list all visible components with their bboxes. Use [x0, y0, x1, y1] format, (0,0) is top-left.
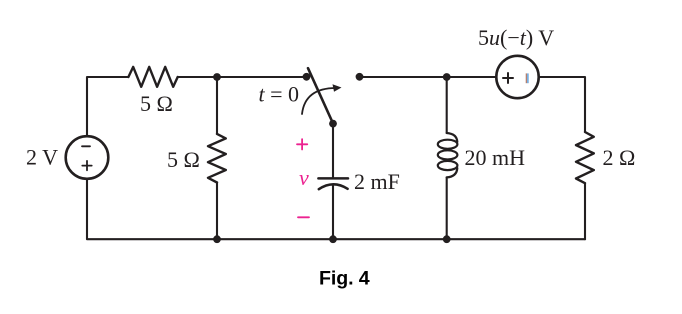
inductor L1 top hook — [447, 133, 458, 142]
wire node B to source U2 — [446, 76, 496, 78]
svg-text:20 mH: 20 mH — [465, 145, 526, 170]
resistor R3 2ohm vertical — [576, 132, 594, 183]
svg-text:5 Ω: 5 Ω — [140, 91, 173, 116]
node B dot — [443, 73, 451, 81]
inductor L1 coil loop 1 — [438, 140, 458, 149]
capacitor voltage plus sign (magenta) — [297, 139, 307, 149]
U2 minus tick (jpeg-coloured) — [526, 73, 528, 83]
U2 plus sign — [503, 73, 513, 83]
switch arrowhead — [333, 84, 342, 92]
wire node A down to R2 — [216, 77, 218, 134]
svg-text:2 mF: 2 mF — [354, 169, 400, 194]
inductor L1 coil loop 2 — [438, 150, 458, 159]
capacitor C1 bottom curved plate — [319, 184, 348, 189]
source V1 circle 2V — [66, 136, 109, 179]
node D dot — [213, 235, 221, 243]
svg-text:5 Ω: 5 Ω — [167, 147, 200, 172]
wire node A to switch pivot — [217, 76, 307, 78]
resistor R1 5ohm horizontal — [128, 67, 177, 87]
wire R3 to bottom-right corner — [584, 183, 586, 239]
wire bottom: node D to bottom-left corner and up to V1 — [87, 179, 217, 239]
switch arrow arc — [302, 88, 336, 114]
node A dot — [213, 73, 221, 81]
resistor R2 5ohm vertical — [208, 134, 226, 183]
wire capacitor C1 to bottom node C — [332, 185, 334, 240]
wire switch open terminal to node B — [362, 76, 446, 78]
V1 minus sign — [82, 145, 90, 147]
svg-text:v: v — [299, 165, 309, 190]
wire R2 to bottom node D — [216, 183, 218, 240]
switch lower terminal dot — [329, 120, 337, 128]
switch open terminal dot — [356, 73, 364, 81]
svg-text:5u(−t) V: 5u(−t) V — [478, 25, 554, 50]
switch blade — [308, 68, 333, 123]
source U2 circle 5u(-t)V — [496, 56, 538, 98]
wire bottom: right corner to node L — [446, 238, 585, 240]
wire top-left from source V1 up and right to R1 — [87, 77, 128, 136]
node L dot — [443, 235, 451, 243]
svg-text:2 V: 2 V — [26, 144, 58, 169]
svg-text:Fig. 4: Fig. 4 — [319, 268, 370, 290]
inductor L1 bottom hook — [447, 168, 458, 177]
wire node B down to inductor L1 — [446, 77, 448, 133]
V1 plus sign — [82, 161, 91, 170]
wire source U2 to top-right corner and down to R3 — [539, 77, 585, 132]
wire R1 to node A — [178, 76, 217, 78]
capacitor voltage minus sign (magenta) — [298, 216, 309, 218]
wire inductor L1 to bottom node L — [446, 177, 448, 239]
svg-text:t = 0: t = 0 — [259, 81, 300, 106]
switch pivot dot — [303, 73, 311, 81]
capacitor C1 top plate — [318, 177, 348, 180]
wire capacitor branch top (switch lower dot to C1) — [332, 123, 334, 177]
node C dot — [329, 235, 337, 243]
svg-text:2 Ω: 2 Ω — [603, 145, 636, 170]
wire bottom: node C to node D — [217, 238, 333, 240]
inductor L1 coil loop 3 — [438, 161, 458, 170]
wire bottom: node L to node C — [333, 238, 446, 240]
